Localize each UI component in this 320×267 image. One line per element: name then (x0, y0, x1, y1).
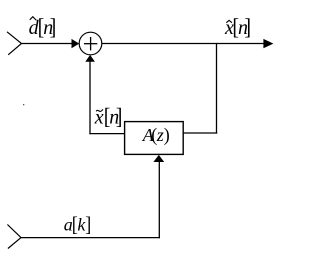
wire feedback vertical (89, 61, 91, 134)
label d_hat[n] (29, 14, 57, 40)
branch from output down (216, 43, 218, 134)
arrowhead into summer left (72, 39, 80, 48)
stray dot (23, 104, 24, 105)
branch into block right (183, 132, 217, 134)
label x_hat[n] (224, 14, 251, 40)
svg-text:): ) (164, 125, 170, 147)
label a[k] (64, 213, 91, 237)
output wire (102, 43, 264, 45)
svg-text:]: ] (50, 14, 57, 40)
svg-text:]: ] (116, 104, 123, 130)
summing junction (79, 32, 102, 55)
wire from a[k] horizontal (21, 237, 160, 239)
svg-text:]: ] (244, 14, 251, 40)
input port d_hat[n] (7, 32, 22, 55)
wire from a[k] vertical (158, 162, 160, 239)
wire feedback horizontal (89, 133, 125, 135)
arrowhead into summer bottom (85, 55, 95, 62)
output arrowhead (263, 39, 273, 48)
wire from input port to summer (22, 43, 73, 45)
arrowhead into block bottom (153, 155, 164, 162)
svg-text:]: ] (85, 213, 91, 237)
svg-text:z: z (156, 125, 164, 145)
label x_tilde[n] (94, 104, 123, 130)
input port a[k] (7, 225, 21, 249)
block A(z) (125, 122, 184, 155)
